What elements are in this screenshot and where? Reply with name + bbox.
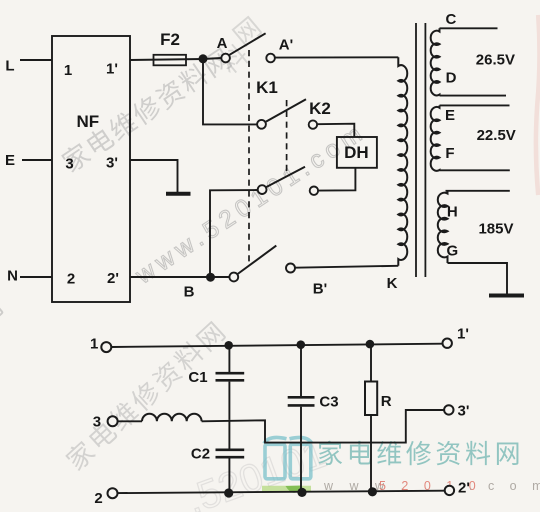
svg-text:3: 3 <box>65 156 73 173</box>
svg-text:C1: C1 <box>188 369 207 386</box>
svg-text:1': 1' <box>457 326 469 343</box>
svg-text:H: H <box>447 204 458 221</box>
svg-text:185V: 185V <box>478 221 513 238</box>
svg-text:A': A' <box>279 37 293 54</box>
svg-text:1: 1 <box>64 62 72 79</box>
svg-text:DH: DH <box>344 143 369 162</box>
svg-text:2: 2 <box>67 271 75 288</box>
svg-text:2': 2' <box>458 480 470 497</box>
svg-text:D: D <box>446 70 457 87</box>
svg-text:22.5V: 22.5V <box>477 127 516 144</box>
svg-text:2': 2' <box>107 270 119 287</box>
svg-text:A: A <box>217 35 228 52</box>
svg-text:3: 3 <box>93 414 101 431</box>
svg-text:C3: C3 <box>319 394 338 411</box>
svg-text:NF: NF <box>76 112 99 131</box>
svg-text:R: R <box>381 393 392 410</box>
svg-text:G: G <box>446 243 458 260</box>
svg-text:F: F <box>445 145 454 162</box>
svg-text:C: C <box>445 11 456 28</box>
svg-text:E: E <box>445 107 455 124</box>
svg-text:L: L <box>5 57 14 74</box>
svg-text:K2: K2 <box>309 99 331 118</box>
svg-text:K: K <box>387 275 398 292</box>
svg-text:1': 1' <box>106 61 118 78</box>
svg-text:1: 1 <box>90 336 98 353</box>
svg-text:C2: C2 <box>191 446 210 463</box>
svg-text:3': 3' <box>458 403 470 420</box>
svg-text:N: N <box>7 268 18 285</box>
svg-text:B: B <box>184 284 195 301</box>
svg-text:3': 3' <box>106 155 118 172</box>
svg-text:E: E <box>5 152 15 169</box>
svg-text:26.5V: 26.5V <box>476 51 515 68</box>
svg-text:K1: K1 <box>256 78 278 97</box>
svg-text:B': B' <box>313 281 327 298</box>
svg-text:2: 2 <box>94 490 102 507</box>
svg-text:. c o m: . c o m <box>469 479 540 493</box>
svg-text:F2: F2 <box>160 30 180 49</box>
